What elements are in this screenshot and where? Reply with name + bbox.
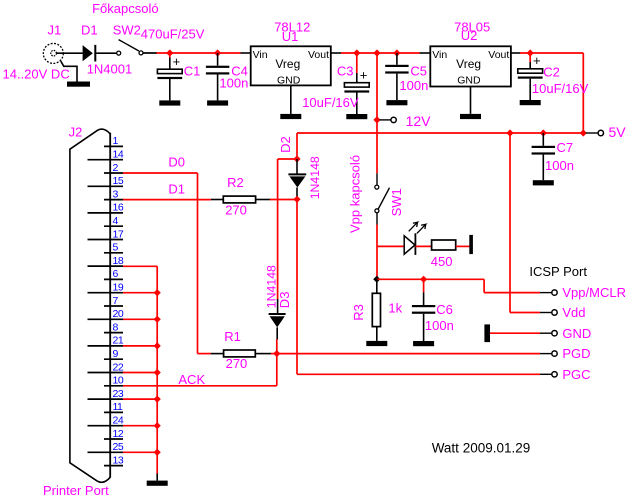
- svg-text:Vreg: Vreg: [456, 57, 481, 71]
- wire 5V down to D2: [296, 133, 298, 159]
- ground C1: [159, 100, 180, 105]
- wire 5V from Vout: [520, 52, 583, 54]
- pin PGC terminal stub: [540, 373, 552, 375]
- op-amp U2 voltage regulator 78L05: [430, 46, 511, 86]
- wire J1 to D1: [57, 52, 83, 54]
- pin 24 of J2: [88, 425, 124, 427]
- svg-text:Vpp/MCLR: Vpp/MCLR: [562, 285, 626, 300]
- pin 16 of J2: [88, 212, 124, 214]
- svg-text:Vout: Vout: [308, 49, 329, 61]
- svg-text:16: 16: [113, 202, 124, 214]
- wire J1 sleeve to ground: [61, 61, 77, 81]
- node ground bus junction pin 23: [154, 396, 161, 403]
- pin U2 Vout stub: [511, 52, 521, 54]
- svg-text:450: 450: [431, 254, 453, 269]
- pin 22 of J2: [88, 372, 124, 374]
- svg-text:7: 7: [113, 295, 119, 307]
- svg-text:5: 5: [113, 242, 119, 254]
- pin U2 GND: [470, 87, 472, 114]
- svg-text:Vdd: Vdd: [562, 305, 585, 320]
- svg-text:Vin: Vin: [253, 49, 268, 61]
- ground U1: [280, 114, 301, 119]
- svg-text:14: 14: [113, 149, 124, 161]
- node Vpp/R3 junction: [373, 276, 380, 283]
- svg-text:D2: D2: [278, 136, 293, 153]
- wire GND to terminal: [490, 332, 540, 334]
- pin 7 of J2: [104, 305, 123, 307]
- svg-text:15: 15: [113, 175, 124, 187]
- resistor R3: [372, 279, 380, 341]
- svg-text:GND: GND: [277, 74, 301, 86]
- svg-text:100n: 100n: [219, 76, 248, 91]
- svg-text:R2: R2: [227, 175, 244, 190]
- wire LED branch: [377, 245, 404, 247]
- resistor R2: [211, 196, 270, 203]
- svg-text:SW2: SW2: [113, 22, 141, 37]
- pin 15 of J2: [88, 185, 124, 187]
- switch SW2: [117, 40, 143, 56]
- switch SW1: [375, 173, 390, 224]
- svg-text:10: 10: [113, 375, 124, 387]
- ground J1: [67, 82, 90, 87]
- capacitor C4: [206, 53, 229, 100]
- svg-text:14..20V DC: 14..20V DC: [3, 67, 70, 82]
- svg-text:C1: C1: [184, 64, 201, 79]
- svg-text:100n: 100n: [425, 318, 454, 333]
- svg-text:470uF/25V: 470uF/25V: [141, 27, 205, 42]
- svg-text:12V: 12V: [406, 113, 432, 129]
- svg-text:10uF/16V: 10uF/16V: [532, 81, 589, 96]
- pin U1 Vin stub: [241, 52, 251, 54]
- ground C4: [207, 100, 228, 105]
- svg-text:ACK: ACK: [178, 372, 205, 387]
- svg-text:10uF/16V: 10uF/16V: [302, 95, 359, 110]
- svg-text:J1: J1: [48, 22, 62, 37]
- connector J1: [43, 43, 63, 63]
- wire 5V rail horizontal: [297, 132, 583, 134]
- wire 12V vertical: [376, 53, 378, 120]
- node ground bus junction pin 25: [154, 449, 161, 456]
- svg-text:ICSP Port: ICSP Port: [529, 264, 587, 279]
- svg-text:2: 2: [113, 162, 119, 174]
- wire D1 to SW2: [95, 52, 116, 54]
- wire D3 vertical from jog: [277, 159, 279, 299]
- LED diode: [404, 222, 426, 255]
- wire D3 to junction: [276, 339, 278, 353]
- wire bus to ground: [156, 474, 158, 481]
- svg-text:Printer Port: Printer Port: [43, 483, 109, 498]
- svg-text:GND: GND: [457, 74, 481, 86]
- svg-text:9: 9: [113, 348, 119, 360]
- svg-text:C6: C6: [436, 302, 453, 317]
- node C4 junction: [214, 49, 221, 56]
- wire Vpp corner to terminal: [484, 279, 540, 292]
- ground C6: [413, 341, 434, 346]
- svg-text:Watt 2009.01.29: Watt 2009.01.29: [432, 440, 531, 455]
- svg-text:PGC: PGC: [562, 367, 590, 382]
- pin 13 of J2: [104, 465, 123, 467]
- resistor 450: [432, 240, 456, 250]
- wire ground bus pin 18: [123, 265, 157, 267]
- svg-text:11: 11: [113, 401, 124, 413]
- node PGC terminal: [552, 372, 557, 377]
- diode D3: [269, 299, 286, 340]
- ground bar LED: [469, 235, 473, 254]
- node 12V branch junction: [373, 49, 380, 56]
- capacitor C3: [344, 53, 369, 114]
- diode D1: [83, 45, 96, 62]
- wire 12V rail: [341, 52, 420, 54]
- node Vdd terminal: [552, 310, 557, 315]
- pin 4 of J2: [104, 225, 123, 227]
- ground U2: [460, 114, 481, 119]
- ground C7: [533, 180, 554, 185]
- wire ground pin 23: [123, 398, 157, 400]
- svg-text:C5: C5: [410, 64, 427, 79]
- pin 25 of J2: [88, 451, 124, 453]
- pin 10 of J2: [104, 385, 123, 387]
- svg-text:6: 6: [113, 268, 119, 280]
- pin 3 of J2: [104, 199, 123, 201]
- svg-text:GND: GND: [562, 326, 591, 341]
- pin U1 Vout stub: [331, 52, 342, 54]
- pin 23 of J2: [88, 398, 124, 400]
- node Vpp/MCLR terminal: [552, 290, 557, 295]
- wire ACK net: [123, 354, 277, 386]
- svg-text:20: 20: [113, 308, 124, 320]
- pin 21 of J2: [88, 345, 124, 347]
- pin Vdd terminal stub: [540, 312, 552, 314]
- svg-text:17: 17: [113, 228, 124, 240]
- wire Vpp horizontal: [377, 278, 484, 280]
- pin 11 of J2: [104, 411, 123, 413]
- pin 5 of J2: [104, 252, 123, 254]
- svg-text:D1: D1: [168, 182, 185, 197]
- node D2 bottom junction: [293, 196, 300, 203]
- svg-text:Vin: Vin: [432, 49, 447, 61]
- node ground bus junction pin 24: [154, 422, 161, 429]
- wire LED to R450: [415, 245, 431, 247]
- svg-text:+: +: [173, 54, 181, 69]
- node D2 top junction: [293, 155, 300, 162]
- pin 12 of J2: [104, 438, 123, 440]
- svg-text:18: 18: [113, 255, 124, 267]
- pin Vpp/MCLR terminal stub: [540, 292, 552, 294]
- svg-text:4: 4: [113, 215, 119, 227]
- svg-text:270: 270: [225, 202, 247, 217]
- ground J2 bus: [147, 481, 168, 486]
- wire ground pin 19: [123, 292, 157, 294]
- wire R450 to gnd bar: [456, 245, 470, 247]
- pin 12V terminal stub: [380, 119, 392, 121]
- wire 5V right corner down: [582, 53, 584, 133]
- pin 20 of J2: [88, 318, 124, 320]
- wire ground bus vertical: [156, 266, 158, 473]
- node C2 junction: [527, 49, 534, 56]
- wire PGC vertical: [296, 199, 298, 374]
- pin PGD terminal stub: [540, 353, 552, 355]
- node ground bus junction pin 21: [154, 342, 161, 349]
- svg-text:+: +: [533, 53, 541, 68]
- wire ground pin 25: [123, 451, 157, 453]
- svg-text:100n: 100n: [545, 158, 574, 173]
- svg-text:21: 21: [113, 335, 124, 347]
- pin U2 Vin stub: [420, 52, 431, 54]
- pin 17 of J2: [88, 239, 124, 241]
- svg-text:22: 22: [113, 361, 124, 373]
- svg-text:8: 8: [113, 321, 119, 333]
- pin 18 of J2: [88, 265, 124, 267]
- capacitor C7: [532, 133, 555, 180]
- svg-text:1: 1: [113, 135, 119, 147]
- svg-text:PGD: PGD: [562, 346, 590, 361]
- capacitor C6: [412, 279, 435, 341]
- capacitor C5: [385, 53, 408, 100]
- wire ground pin 21: [123, 345, 157, 347]
- pin 6 of J2: [104, 278, 123, 280]
- pin 14 of J2: [88, 159, 124, 161]
- svg-text:23: 23: [113, 388, 124, 400]
- pin 9 of J2: [104, 358, 123, 360]
- wire Vdd vertical: [510, 133, 540, 313]
- svg-text:J2: J2: [69, 124, 83, 139]
- svg-text:Vreg: Vreg: [275, 57, 300, 71]
- svg-text:R3: R3: [351, 304, 366, 321]
- svg-text:Főkapcsoló: Főkapcsoló: [92, 1, 158, 16]
- capacitor C2: [518, 53, 543, 100]
- node ground bus junction pin 19: [154, 289, 161, 296]
- svg-text:SW1: SW1: [389, 188, 404, 216]
- svg-text:U2: U2: [461, 28, 478, 43]
- svg-text:D0: D0: [168, 155, 185, 170]
- wire ground pin 20: [123, 318, 157, 320]
- connector J2 outline: [70, 129, 110, 482]
- ground R3: [366, 341, 387, 346]
- wire SW2 to rail: [143, 52, 157, 54]
- pin 8 of J2: [104, 332, 123, 334]
- svg-text:1N4148: 1N4148: [308, 156, 322, 199]
- wire jog to D3 line: [278, 158, 297, 160]
- svg-text:270: 270: [226, 356, 248, 371]
- node ground bus junction pin 22: [154, 369, 161, 376]
- svg-text:5V: 5V: [609, 124, 627, 140]
- node 5V corner junction: [580, 129, 587, 136]
- svg-text:U1: U1: [282, 29, 299, 44]
- svg-text:12: 12: [113, 428, 124, 440]
- node ground bus junction pin 20: [154, 316, 161, 323]
- svg-text:Vpp kapcsoló: Vpp kapcsoló: [348, 155, 363, 233]
- wire D0 net: [123, 173, 211, 354]
- node C5 junction: [393, 49, 400, 56]
- node C6 junction: [420, 276, 427, 283]
- svg-text:25: 25: [113, 441, 124, 453]
- wire ground pin 22: [123, 372, 157, 374]
- svg-text:C3: C3: [337, 64, 354, 79]
- diode D2: [288, 159, 306, 199]
- node R1/D3/ACK junction: [273, 350, 280, 357]
- node C7 junction: [540, 129, 547, 136]
- wire D1 net: [123, 199, 211, 201]
- node GND terminal: [552, 331, 557, 336]
- ground C2: [520, 100, 541, 105]
- pin 2 of J2: [104, 172, 123, 174]
- node Vdd branch junction: [506, 129, 513, 136]
- ground bar ICSP GND: [484, 324, 490, 342]
- node PGD terminal: [552, 351, 557, 356]
- svg-text:3: 3: [113, 188, 119, 200]
- resistor R1: [211, 350, 271, 357]
- svg-text:D1: D1: [81, 22, 98, 37]
- wire input rail red: [157, 52, 241, 54]
- svg-text:+: +: [360, 67, 368, 82]
- wire 12V to SW1: [376, 120, 378, 173]
- pin 1 of J2: [104, 145, 123, 147]
- svg-text:1k: 1k: [388, 301, 402, 316]
- svg-text:R1: R1: [224, 329, 241, 344]
- node C1 junction: [166, 49, 173, 56]
- wire PGD net: [277, 353, 540, 355]
- svg-text:D3: D3: [277, 292, 292, 309]
- capacitor C1: [157, 53, 182, 100]
- wire PGC horizontal: [297, 373, 540, 375]
- svg-text:13: 13: [113, 454, 124, 466]
- op-amp U1 voltage regulator 78L12: [251, 46, 331, 86]
- ground C5: [386, 100, 407, 105]
- svg-text:Vout: Vout: [488, 49, 509, 61]
- pin 5V terminal stub: [586, 132, 599, 134]
- node 5V terminal: [598, 130, 603, 135]
- pin GND terminal stub: [540, 332, 552, 334]
- svg-text:C2: C2: [543, 65, 560, 80]
- svg-text:C7: C7: [557, 140, 574, 155]
- ground C3: [346, 114, 367, 119]
- svg-text:100n: 100n: [399, 78, 428, 93]
- node 12V terminal: [391, 117, 396, 122]
- node 12V terminal junction: [373, 116, 380, 123]
- svg-text:1N4001: 1N4001: [87, 62, 133, 77]
- svg-text:24: 24: [113, 415, 124, 427]
- wire R2 to D2 junction: [270, 199, 297, 201]
- wire R1 to junction: [271, 353, 277, 355]
- node C3 junction: [353, 49, 360, 56]
- svg-text:19: 19: [113, 282, 124, 294]
- pin U1 GND: [290, 85, 292, 114]
- wire ground pin 24: [123, 425, 157, 427]
- pin 19 of J2: [88, 292, 124, 294]
- wire SW1 to Vpp node: [376, 225, 378, 280]
